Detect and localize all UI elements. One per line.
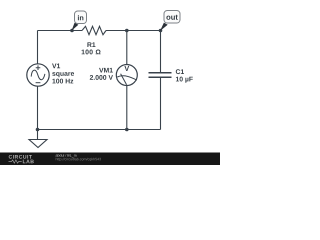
- wire capacitor branch bottom: [160, 78, 162, 130]
- capacitor C1 top plate: [149, 72, 172, 74]
- capacitor C1 bottom plate: [149, 76, 172, 78]
- wire capacitor branch top: [160, 31, 162, 73]
- VM1 meter scale arc: [117, 76, 137, 80]
- footer logo LAB: [23, 160, 34, 164]
- wire top-left horizontal: [38, 30, 83, 32]
- V1 sine wave glyph: [31, 70, 45, 80]
- out flag pointer: [160, 23, 168, 31]
- voltage source V1 circle: [27, 64, 49, 86]
- footer logo CIRCUIT: [9, 155, 32, 159]
- footer bar: [0, 153, 220, 166]
- footer logo zigzag: [9, 160, 22, 163]
- wire top-right horizontal: [106, 30, 161, 32]
- junction node at in flag: [70, 29, 74, 33]
- in flag label: [78, 15, 83, 20]
- V1 minus sign: [36, 82, 41, 84]
- resistor R1 zigzag: [82, 26, 106, 34]
- label R1: [87, 42, 95, 47]
- footer credit line 2: [56, 158, 101, 161]
- junction node ground tap: [36, 128, 40, 132]
- junction node out corner: [159, 29, 163, 33]
- label 10 uF: [176, 77, 193, 83]
- label VM1: [99, 68, 113, 73]
- footer credit line 1: [56, 154, 77, 157]
- label 2.000 V: [90, 75, 113, 80]
- in flag box: [75, 11, 87, 24]
- ground symbol: [29, 140, 47, 148]
- label C1: [176, 69, 184, 74]
- label V1: [52, 64, 60, 69]
- out flag label: [166, 15, 177, 20]
- label square: [52, 72, 74, 77]
- junction node voltmeter top: [125, 29, 129, 33]
- wire left vertical top: [37, 31, 39, 64]
- ground stub wire: [37, 130, 39, 140]
- wire left vertical bottom: [37, 86, 39, 129]
- VM1 meter needle: [121, 74, 127, 85]
- wire voltmeter branch bottom: [126, 86, 128, 130]
- voltmeter VM1 circle: [116, 65, 137, 86]
- label 100 Hz: [52, 79, 73, 84]
- junction node voltmeter bottom: [125, 128, 129, 132]
- voltmeter letter V: [124, 66, 129, 71]
- wire bottom horizontal: [38, 129, 161, 131]
- out flag box: [164, 11, 180, 24]
- in flag pointer: [72, 23, 79, 31]
- label 100 ohm: [82, 50, 101, 55]
- V1 plus sign: [36, 65, 41, 70]
- wire voltmeter branch top: [126, 31, 128, 65]
